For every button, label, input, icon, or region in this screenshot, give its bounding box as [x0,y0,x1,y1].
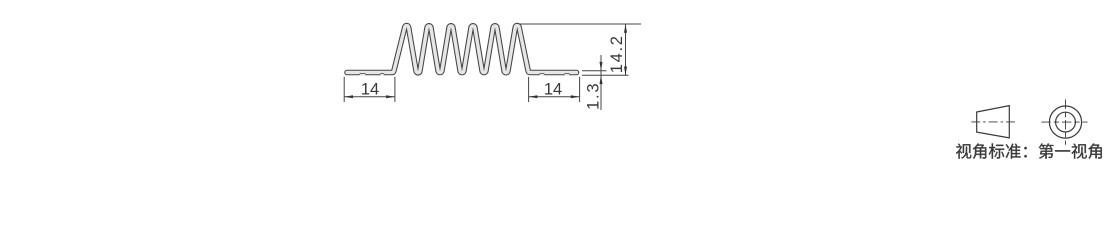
first-angle projection symbol: end view circles [1041,99,1087,144]
svg-text:14: 14 [544,81,562,99]
first-angle projection symbol: frustum side view [971,106,1015,138]
spring wire outline (dark pass) [347,26,577,73]
left foot wire-end notch 1 [359,74,366,75]
left foot wire-end notch 2 [380,74,385,75]
dimension: left foot length 14 [344,77,395,102]
spring wire body (light fill pass) [347,26,577,73]
svg-text:1.3: 1.3 [585,82,603,110]
caption: 视角标准：第一视角 [956,143,1102,158]
right foot wire-end notch 1 [539,74,545,75]
right foot wire-end notch 2 [564,74,571,75]
dimension: wire thickness 1.3 [582,55,629,110]
svg-text:14: 14 [361,81,379,99]
dimension: overall height 14.2 [519,24,642,75]
dimension: right foot length 14 [529,77,580,102]
svg-text:14.2: 14.2 [608,34,626,73]
